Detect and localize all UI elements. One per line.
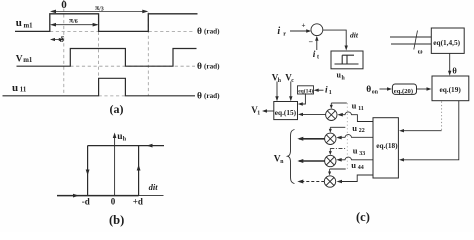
curly brace V_n xyxy=(288,130,295,184)
M1 top line xyxy=(331,102,347,104)
block eq(19) xyxy=(432,76,469,101)
svg-text:22: 22 xyxy=(359,128,365,134)
multiplier M2 circle with X xyxy=(325,133,336,144)
svg-text:1: 1 xyxy=(329,90,332,96)
svg-text:u: u xyxy=(352,101,357,111)
wire summer to hysteresis block xyxy=(323,30,347,48)
wire theta_on to eq(20) xyxy=(380,88,391,90)
svg-text:i: i xyxy=(277,26,280,37)
svg-text:44: 44 xyxy=(358,165,364,171)
b vertical axis xyxy=(114,135,116,196)
axis u_11 dashed theta axis xyxy=(99,95,126,97)
svg-text:θ: θ xyxy=(197,91,202,101)
block eq(18) xyxy=(373,118,398,178)
arrow V_c down into eq(15) xyxy=(290,82,292,100)
multiplier M3 circle with X xyxy=(325,155,336,166)
svg-text:m1: m1 xyxy=(23,57,33,64)
wire eq(1,4,5) to eq(19) xyxy=(449,53,451,73)
dotted vertical from eq(19) bottom xyxy=(441,102,443,131)
svg-text:(c): (c) xyxy=(356,210,370,224)
hysteresis symbol inside xyxy=(335,55,359,64)
svg-text:i: i xyxy=(313,50,316,60)
M4 top entry arrow xyxy=(329,169,331,173)
b loop left vertical with down arrow xyxy=(87,146,89,196)
svg-text:δ: δ xyxy=(60,34,65,44)
M4 output arrow left dashed xyxy=(299,181,324,183)
svg-text:11: 11 xyxy=(358,106,364,112)
svg-text:eq.(20): eq.(20) xyxy=(394,88,413,95)
vertical dotted bus right of multipliers xyxy=(346,103,348,169)
svg-text:θ: θ xyxy=(197,62,202,72)
svg-text:+: + xyxy=(302,22,306,30)
dashed vertical at pi/6 xyxy=(98,26,100,96)
wire u11 from eq(18) to M1 with hop xyxy=(339,112,373,122)
svg-text:t: t xyxy=(317,55,319,61)
M2 top line xyxy=(330,126,345,128)
svg-text:(rad): (rad) xyxy=(204,28,220,36)
M3 output arrow left thick xyxy=(299,160,325,162)
wire eq(19) bottom to eq(18) right lower xyxy=(401,101,459,160)
waveform u_11 xyxy=(3,78,196,96)
b horizontal axis xyxy=(57,195,164,197)
svg-text:on: on xyxy=(372,90,379,96)
wire eq(20) to eq(19) xyxy=(417,88,430,90)
wire u33 from eq(18) to M3 with hop xyxy=(339,157,374,160)
svg-text:r: r xyxy=(283,31,286,38)
svg-text:0: 0 xyxy=(111,197,116,207)
svg-text:u: u xyxy=(352,123,357,133)
svg-text:(rad): (rad) xyxy=(204,92,220,100)
svg-text:i: i xyxy=(325,86,328,96)
slash tick across inputs xyxy=(414,31,418,50)
block eq(15) xyxy=(274,102,298,120)
svg-text:-d: -d xyxy=(82,197,90,207)
block eq(20) rounded xyxy=(392,84,416,94)
b top line left arrowhead xyxy=(147,144,153,148)
wire eq(15) to V_1 xyxy=(264,110,274,112)
b loop right vertical with up arrow xyxy=(138,146,140,196)
arrow V_h down into eq(15) xyxy=(276,82,278,100)
wire u22 from eq(18) to M2 with hop xyxy=(338,135,373,138)
wire M1 to eq(15) xyxy=(300,113,326,115)
svg-text:(b): (b) xyxy=(109,213,124,227)
svg-text:u: u xyxy=(351,160,356,170)
M1 top entry arrow xyxy=(330,103,332,107)
svg-text:33: 33 xyxy=(359,151,365,157)
arrow pi/6 double xyxy=(52,24,98,26)
axis v_m1 dashed theta axis xyxy=(70,65,195,67)
dashed vertical at pi/3 xyxy=(147,13,149,96)
svg-text:(a): (a) xyxy=(110,102,124,116)
arrow pi/3 double xyxy=(52,10,148,12)
dashed vertical at 0 xyxy=(63,0,65,2)
svg-text:u: u xyxy=(353,145,358,155)
svg-text:0: 0 xyxy=(61,0,67,11)
block eq(1,4,5) xyxy=(431,28,464,53)
wire i_t up into summer xyxy=(316,38,318,51)
svg-text:θ: θ xyxy=(366,85,371,95)
multiplier M4 circle with X xyxy=(324,176,335,187)
svg-text:eq.(19): eq.(19) xyxy=(440,85,462,94)
svg-text:u: u xyxy=(12,82,18,94)
M2 top entry arrow xyxy=(329,127,331,130)
svg-text:11: 11 xyxy=(20,87,27,94)
svg-text:θ: θ xyxy=(197,27,202,37)
input lines to eq(1,4,5) xyxy=(390,37,431,44)
M3 top line dash-dot xyxy=(330,147,345,149)
wire into eq(18) right upper xyxy=(401,130,442,132)
svg-text:eq.(15): eq.(15) xyxy=(275,108,297,117)
summing junction xyxy=(311,24,323,36)
svg-text:eq(1,4,5): eq(1,4,5) xyxy=(433,38,460,47)
svg-text:1: 1 xyxy=(257,111,260,117)
svg-text:u: u xyxy=(16,17,22,29)
hysteresis block xyxy=(331,51,363,69)
b hysteresis top line xyxy=(88,145,164,147)
svg-text:eq.(18): eq.(18) xyxy=(376,141,398,150)
svg-text:(rad): (rad) xyxy=(204,63,220,71)
wire eq(14) down into eq(15) right side xyxy=(300,94,305,104)
wire i_r to summer xyxy=(290,30,308,32)
svg-text:ω: ω xyxy=(418,49,423,56)
arrow delta double xyxy=(51,39,62,41)
b bottom branch thick with right arrow xyxy=(57,195,139,197)
block eq(14) small xyxy=(298,86,314,94)
svg-text:eq(14): eq(14) xyxy=(298,88,313,95)
svg-text:dit: dit xyxy=(149,182,159,192)
svg-text:c: c xyxy=(291,78,294,84)
svg-text:θ: θ xyxy=(452,66,457,76)
wire i_1 into eq(14) xyxy=(316,89,324,91)
svg-text:V: V xyxy=(16,54,23,64)
svg-text:m1: m1 xyxy=(24,23,34,30)
svg-text:+d: +d xyxy=(133,197,143,207)
waveform v_m1 xyxy=(17,49,197,67)
axis u_m1 dashed theta axis xyxy=(50,31,195,33)
svg-text:dit: dit xyxy=(350,30,359,39)
M2 output arrow left thick xyxy=(299,138,325,140)
wire u44 from eq(18) to M4 xyxy=(339,175,374,182)
waveform u_m1 xyxy=(15,14,198,32)
svg-text:−: − xyxy=(309,38,314,47)
M3 top entry arrow xyxy=(329,148,331,151)
multiplier M1 circle with X xyxy=(326,109,337,120)
M4 top line xyxy=(330,168,346,170)
